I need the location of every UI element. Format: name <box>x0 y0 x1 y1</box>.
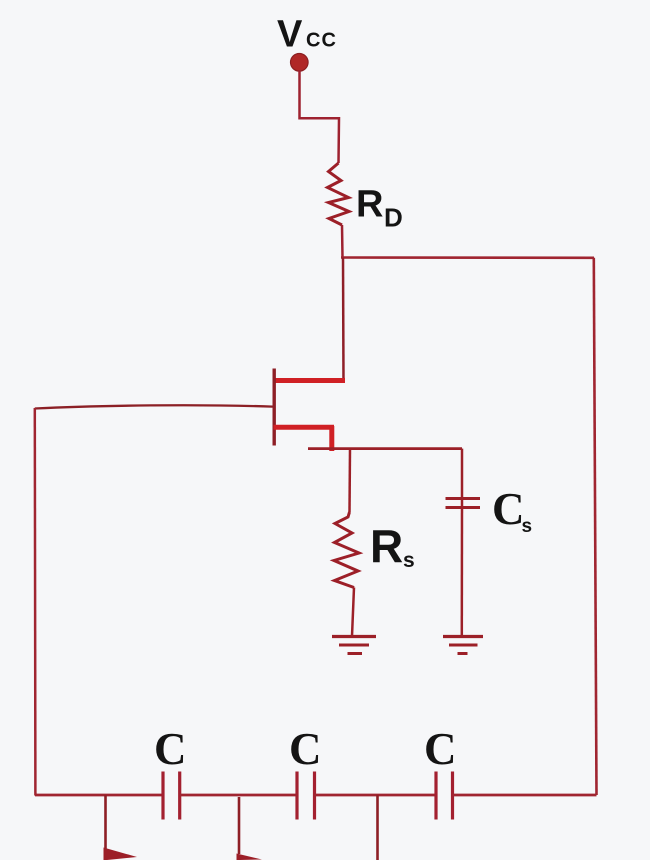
ground under Rs <box>332 637 376 654</box>
label Cs <box>492 484 532 537</box>
wire RD bottom to drain node <box>341 225 344 258</box>
wire source node to Cs top <box>461 449 464 503</box>
wire Vcc dot to RD top (with jog) <box>300 70 340 163</box>
svg-text:C: C <box>154 724 187 774</box>
wire stub down R3 <box>376 795 379 860</box>
wire bottom rail segment C3 to right rail <box>453 794 597 797</box>
capacitor C2 <box>297 772 315 820</box>
svg-text:D: D <box>384 203 403 233</box>
svg-text:C: C <box>289 724 322 774</box>
capacitor Cs <box>446 499 481 508</box>
capacitor C1 <box>163 772 180 820</box>
svg-text:R: R <box>370 520 403 572</box>
capacitor C3 <box>436 772 453 820</box>
resistor R2 start wedge <box>237 854 263 860</box>
wire source node (horizontal) <box>308 447 462 450</box>
svg-text:CC: CC <box>306 30 337 52</box>
wire drain node to right rail (horizontal) <box>341 256 594 259</box>
transistor Q1 gate bar <box>273 369 276 446</box>
transistor Q1 source arm <box>274 425 335 430</box>
transistor Q1 source stub <box>329 426 334 451</box>
svg-text:s: s <box>403 549 415 572</box>
transistor Q1 drain arm <box>274 378 346 383</box>
svg-text:R: R <box>356 184 383 226</box>
resistor Rs <box>334 512 359 588</box>
wire Cs bottom to ground <box>461 503 464 636</box>
wire left rail (vertical) <box>34 408 37 796</box>
svg-text:C: C <box>424 724 457 774</box>
wire bottom rail segment left rail to C1 <box>35 794 163 797</box>
wire bottom rail segment C1 to C2 <box>180 794 297 797</box>
wire drain node down to transistor drain arm <box>342 258 345 382</box>
svg-text:s: s <box>522 516 533 537</box>
resistor R1 start wedge <box>104 848 138 860</box>
wire right rail (vertical) <box>594 258 597 795</box>
resistor RD <box>328 163 350 225</box>
label RD <box>356 184 403 233</box>
svg-text:C: C <box>492 484 525 534</box>
ground under Cs <box>443 637 483 654</box>
label Rs <box>370 520 415 572</box>
wire bottom rail segment C2 to C3 <box>315 794 437 797</box>
wire Rs bottom to ground <box>352 588 354 637</box>
node Vcc label <box>277 14 337 56</box>
Vcc terminal dot <box>291 54 309 72</box>
wire source node to Rs top <box>348 449 351 512</box>
wire stub down R1 <box>104 795 107 852</box>
svg-text:V: V <box>277 14 303 56</box>
wire gate lead to left rail <box>35 405 273 408</box>
wire stub down R2 <box>238 797 241 854</box>
